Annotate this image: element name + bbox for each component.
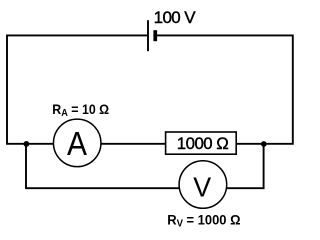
svg-text:A: A [67,125,87,162]
svg-text:1000 Ω: 1000 Ω [177,134,229,153]
svg-text:100 V: 100 V [154,8,197,27]
svg-text:RA = 10 Ω: RA = 10 Ω [52,101,109,119]
svg-text:V: V [193,171,211,202]
